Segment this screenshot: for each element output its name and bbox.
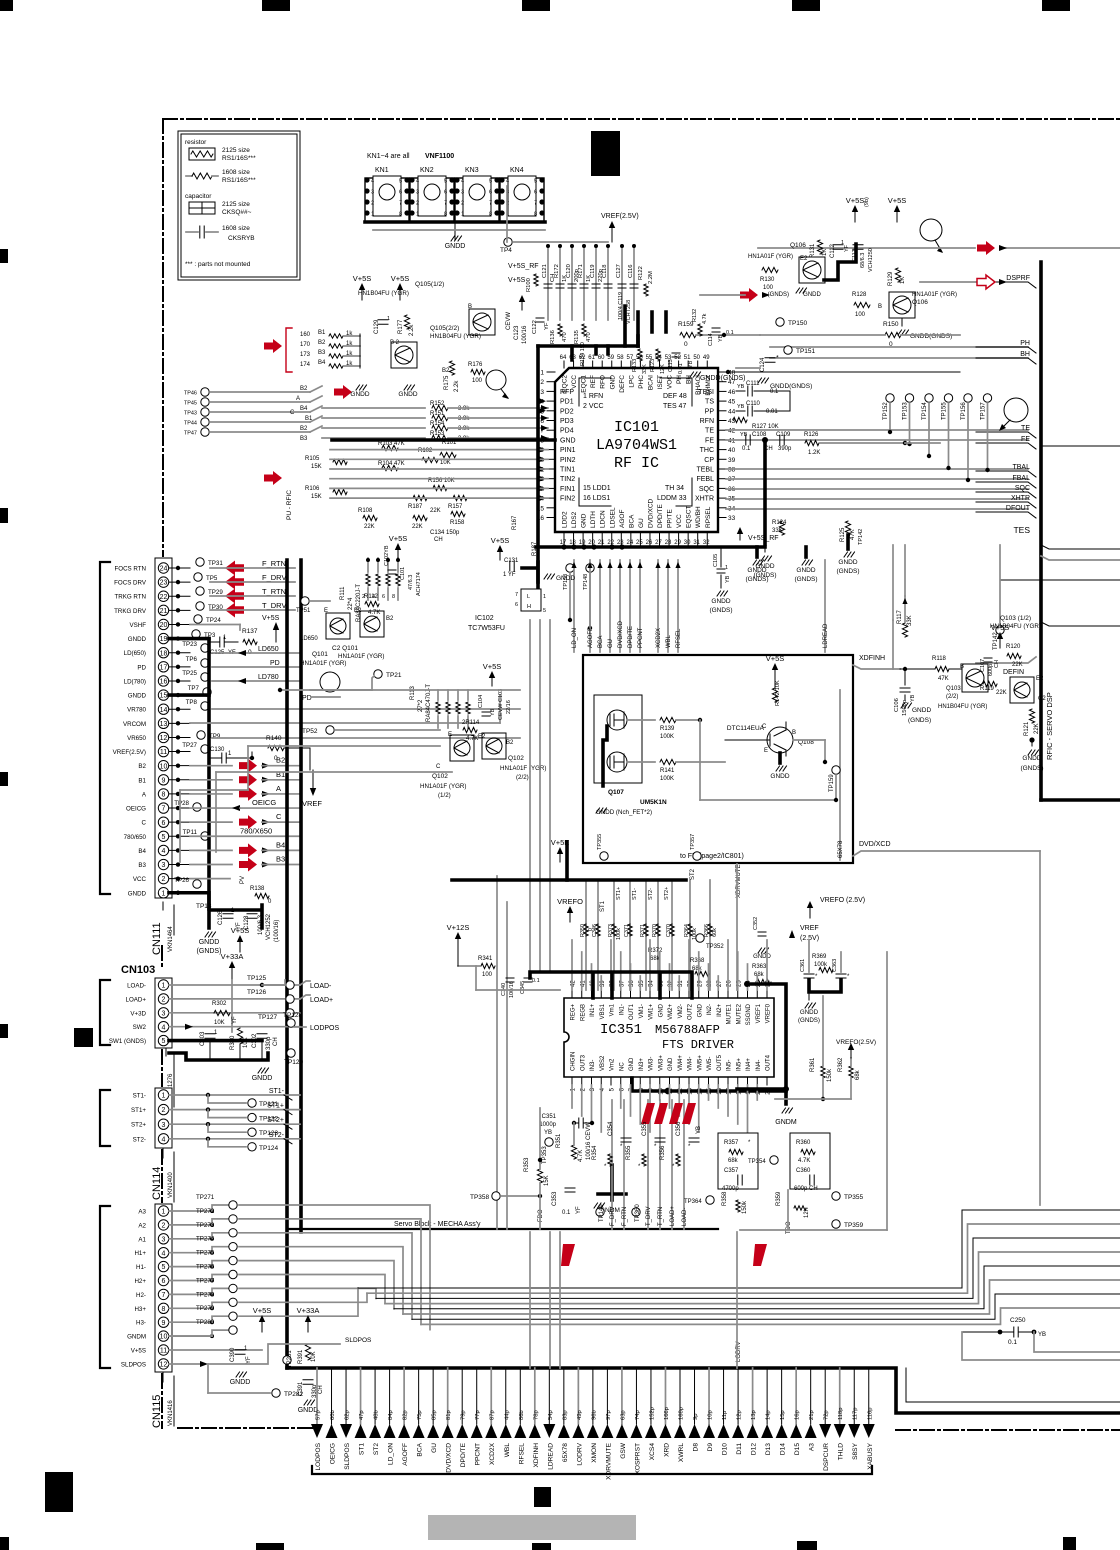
svg-text:R157: R157	[448, 504, 463, 510]
capacitor C390	[235, 1350, 245, 1354]
svg-text:F_RTN: F_RTN	[622, 1207, 628, 1226]
svg-text:TBAL: TBAL	[1012, 464, 1030, 471]
svg-text:C2: C2	[1038, 696, 1046, 702]
V+5S arrow Q102	[491, 678, 493, 686]
svg-text:14: 14	[160, 707, 168, 714]
resistor R101 R102	[440, 452, 456, 457]
svg-text:TE: TE	[1021, 425, 1030, 432]
wire rows to IC101 pins	[330, 449, 548, 451]
TP150	[776, 318, 784, 326]
svg-text:1: 1	[461, 212, 464, 218]
R357 68k C357 4700p	[718, 1133, 758, 1189]
svg-text:C: C	[290, 410, 295, 416]
wire KN to IC101	[506, 186, 508, 242]
svg-text:7: 7	[444, 201, 447, 207]
svg-text:31: 31	[693, 540, 700, 546]
svg-text:TDO: TDO	[786, 1221, 792, 1234]
svg-text:4700p: 4700p	[722, 1186, 739, 1192]
R150 resistor top	[885, 332, 901, 337]
svg-text:VSHF: VSHF	[129, 622, 146, 629]
resistors R108 R158	[363, 515, 377, 520]
svg-text:24: 24	[627, 540, 634, 546]
net DEFIN notch	[976, 657, 1036, 663]
svg-text:VBS2: VBS2	[600, 1055, 606, 1071]
svg-text:0.1: 0.1	[726, 330, 734, 336]
svg-text:IN5+: IN5+	[736, 1058, 742, 1071]
CN103 pins	[158, 980, 168, 990]
svg-text:GND: GND	[629, 1057, 635, 1071]
svg-text:VREFO (2.5V): VREFO (2.5V)	[820, 897, 865, 904]
frame border left lower segments	[161, 946, 163, 1428]
svg-text:7: 7	[399, 201, 402, 207]
svg-text:R362: R362	[838, 1057, 844, 1072]
svg-text:TEBL: TEBL	[696, 467, 714, 474]
C122 cap	[536, 318, 544, 322]
svg-text:22K: 22K	[996, 690, 1007, 696]
svg-text:54p: 54p	[548, 1410, 554, 1420]
svg-text:C302: C302	[252, 1033, 258, 1048]
svg-text:ST2: ST2	[373, 1443, 380, 1455]
svg-text:R138: R138	[250, 886, 265, 892]
net pin D9	[708, 1368, 710, 1424]
svg-text:10K: 10K	[214, 1020, 225, 1026]
svg-text:IN5-: IN5-	[727, 1060, 733, 1071]
svg-text:59: 59	[607, 355, 614, 361]
net FE	[726, 439, 1028, 441]
svg-text:16 LDS1: 16 LDS1	[583, 495, 610, 502]
svg-text:390p: 390p	[778, 446, 792, 452]
svg-text:5: 5	[162, 834, 166, 841]
svg-text:ST2+: ST2+	[664, 887, 670, 900]
svg-text:15K: 15K	[544, 1175, 550, 1186]
svg-text:5: 5	[543, 608, 546, 614]
svg-text:27: 27	[655, 540, 662, 546]
svg-text:D12: D12	[751, 1443, 758, 1455]
red arrow B1	[190, 779, 232, 781]
R360 4.7K C360 600p	[790, 1133, 830, 1189]
svg-text:C370: C370	[666, 924, 672, 937]
op-amp IC101 body	[555, 368, 718, 532]
svg-text:RFSEL: RFSEL	[518, 1443, 525, 1465]
net pin ST1	[360, 1368, 362, 1424]
svg-text:C355: C355	[642, 1121, 648, 1136]
svg-text:C113: C113	[668, 359, 674, 372]
svg-text:11: 11	[160, 1348, 167, 1355]
svg-text:R176: R176	[468, 362, 483, 368]
svg-text:R167: R167	[512, 515, 518, 530]
svg-text:VBS1: VBS1	[600, 1003, 606, 1019]
svg-text:TP44: TP44	[184, 421, 197, 427]
TP356 TP357 bottom of box	[600, 852, 608, 860]
svg-text:R154: R154	[430, 421, 445, 427]
TP359	[832, 1220, 840, 1228]
svg-text:3: 3	[371, 190, 374, 196]
svg-text:C134 150p: C134 150p	[430, 530, 460, 536]
svg-text:C250: C250	[1010, 1317, 1026, 1324]
svg-text:2.2k: 2.2k	[409, 324, 415, 336]
svg-text:Q105(2/2): Q105(2/2)	[430, 325, 459, 332]
svg-text:TP25: TP25	[182, 670, 197, 677]
R136 R135 470 resistors	[558, 324, 562, 336]
svg-text:C126: C126	[218, 910, 224, 925]
svg-text:11: 11	[160, 749, 167, 756]
svg-text:GNDD: GNDD	[838, 559, 857, 566]
svg-text:1: 1	[540, 370, 544, 377]
svg-text:B2: B2	[318, 340, 326, 346]
net XHTR	[726, 498, 1028, 500]
svg-text:KN1: KN1	[375, 167, 389, 174]
svg-text:FBAL: FBAL	[1012, 475, 1030, 482]
thin box bottom right	[906, 1368, 1120, 1402]
svg-text:R355: R355	[626, 1145, 632, 1160]
svg-text:75p: 75p	[417, 1410, 423, 1420]
svg-text:6: 6	[382, 594, 385, 600]
svg-text:TC7W53FU: TC7W53FU	[468, 625, 505, 632]
svg-text:GND: GND	[697, 1003, 703, 1017]
C340 100/16	[506, 978, 514, 982]
svg-text:64: 64	[560, 355, 567, 361]
svg-text:170: 170	[300, 342, 311, 348]
svg-text:81p: 81p	[446, 1410, 452, 1420]
svg-text:ST1+: ST1+	[616, 887, 622, 900]
svg-text:PIN1: PIN1	[560, 447, 576, 454]
svg-text:GNDD (Nch_FET*2): GNDD (Nch_FET*2)	[596, 809, 652, 816]
svg-text:13: 13	[160, 721, 168, 728]
svg-text:R360: R360	[796, 1140, 811, 1146]
svg-text:22K: 22K	[1012, 662, 1023, 668]
svg-text:1608 size: 1608 size	[222, 169, 250, 176]
svg-text:ACH7174: ACH7174	[416, 572, 422, 596]
svg-text:97p: 97p	[606, 1410, 612, 1420]
resistor R131 and C112	[817, 240, 822, 254]
svg-text:R172: R172	[554, 264, 560, 278]
svg-text:(GNDS): (GNDS)	[197, 948, 222, 955]
VREFO(2.5V) arrow right of IC351	[850, 1050, 852, 1058]
TP354 TP364	[706, 1196, 714, 1204]
svg-text:ST1: ST1	[600, 900, 606, 912]
registration mark top 3	[522, 0, 550, 11]
svg-text:TH 34: TH 34	[665, 485, 684, 492]
VR650 long wire	[212, 737, 520, 739]
net pin D13	[766, 1368, 768, 1424]
IC101 left pin stubs and labels	[547, 371, 555, 373]
svg-text:H2-: H2-	[136, 1292, 146, 1299]
svg-text:PPCNT: PPCNT	[475, 1443, 482, 1465]
svg-text:LPC: LPC	[628, 375, 635, 388]
GNDD GNDS drops under bus	[755, 547, 759, 557]
svg-text:10K: 10K	[311, 1351, 317, 1362]
svg-text:R353: R353	[524, 1157, 530, 1172]
svg-text:TRKG RTN: TRKG RTN	[114, 594, 146, 601]
svg-text:7: 7	[162, 1292, 166, 1299]
svg-text:TP272: TP272	[196, 1208, 215, 1215]
svg-text:C107: C107	[980, 659, 986, 672]
svg-text:E: E	[764, 748, 768, 754]
svg-text:1K: 1K	[822, 249, 828, 256]
svg-text:0.1: 0.1	[532, 978, 540, 984]
svg-text:B1: B1	[276, 770, 285, 779]
IC101 inner bracket bottom-right TH LDDM	[676, 478, 692, 506]
net pin LD_ON	[389, 1368, 391, 1424]
svg-text:GSW: GSW	[620, 1442, 627, 1459]
svg-text:9p: 9p	[693, 1414, 699, 1420]
svg-text:TP47: TP47	[184, 431, 197, 437]
svg-text:33: 33	[728, 515, 736, 522]
resistor R140	[268, 745, 284, 750]
wires below Q102	[248, 745, 440, 747]
svg-text:TP352: TP352	[706, 944, 724, 950]
svg-text:DVD/XCD: DVD/XCD	[647, 498, 654, 528]
frame border bottom	[178, 1427, 312, 1429]
registration mark top-left	[0, 0, 13, 11]
V+5S arrow Q103	[999, 639, 1001, 648]
svg-text:AGOF: AGOF	[619, 510, 626, 528]
svg-text:TP21: TP21	[386, 672, 402, 679]
bank above IC351	[585, 880, 587, 990]
svg-text:R366: R366	[704, 924, 710, 937]
svg-text:100/16 CEVW: 100/16 CEVW	[586, 1122, 592, 1160]
connector CN111 body	[155, 558, 172, 898]
svg-text:TP23: TP23	[182, 641, 197, 648]
svg-text:ST2-: ST2-	[269, 1132, 285, 1139]
svg-text:R139: R139	[660, 726, 675, 732]
svg-text:GNDD: GNDD	[128, 636, 147, 643]
svg-text:GNDD: GNDD	[252, 1075, 273, 1082]
R119 22K	[983, 681, 997, 686]
svg-text:DPD/TE: DPD/TE	[628, 626, 634, 648]
svg-text:HN1A01F (YGR): HN1A01F (YGR)	[420, 783, 466, 790]
svg-text:14p: 14p	[766, 1410, 772, 1420]
net wire to DSP top	[758, 247, 975, 249]
GNDD GNDS Q103	[1029, 737, 1034, 742]
thick V+5S_RF junction	[763, 440, 767, 544]
C105 cap under bus	[717, 569, 725, 573]
svg-text:HN1B04FU (YGR): HN1B04FU (YGR)	[990, 623, 1041, 630]
svg-text:R356: R356	[660, 1145, 666, 1160]
svg-text:C101: C101	[400, 567, 406, 580]
svg-text:100/6.3: 100/6.3	[258, 914, 264, 935]
svg-text:XWRL: XWRL	[678, 1443, 685, 1462]
svg-text:TESI: TESI	[698, 389, 714, 396]
svg-text:IN1-: IN1-	[619, 1004, 625, 1015]
svg-text:TRKG DRV: TRKG DRV	[114, 608, 147, 615]
R141 100K	[627, 761, 655, 763]
svg-text:D14: D14	[780, 1443, 787, 1455]
svg-text:(9b): (9b)	[864, 197, 870, 207]
circle annotation left lower	[320, 672, 340, 692]
connector CN114 body	[155, 1088, 172, 1148]
wire T_RTN	[210, 595, 295, 597]
red arrow rows160	[264, 339, 282, 353]
R120 22K	[1007, 653, 1021, 658]
transistor Q102b	[482, 733, 506, 759]
svg-text:TIN2: TIN2	[560, 476, 575, 483]
svg-text:C110: C110	[746, 401, 761, 407]
net pin D12	[752, 1368, 754, 1424]
net pin BCA	[418, 1368, 420, 1424]
svg-text:8: 8	[162, 792, 166, 799]
svg-text:XHTR: XHTR	[695, 496, 714, 503]
svg-text:R368: R368	[690, 958, 705, 964]
VR780 long wire	[212, 708, 520, 710]
svg-text:T_DRV: T_DRV	[262, 601, 286, 610]
svg-text:OUT1: OUT1	[629, 1003, 635, 1020]
FET Q107b	[607, 752, 627, 772]
svg-text:68/6.3: 68/6.3	[860, 253, 866, 268]
svg-text:C119: C119	[590, 265, 596, 278]
net pin THLD	[839, 1368, 841, 1424]
svg-text:VM3-: VM3-	[649, 1057, 655, 1071]
svg-text:C124: C124	[760, 357, 766, 372]
net pin XCD2X	[490, 1368, 492, 1424]
svg-text:68k: 68k	[754, 972, 765, 978]
svg-text:12p: 12p	[737, 1410, 743, 1420]
net pin XABUSY	[868, 1368, 870, 1424]
svg-text:C: C	[762, 724, 767, 730]
svg-text:(GNDS): (GNDS)	[794, 576, 817, 583]
svg-text:45: 45	[728, 399, 736, 406]
svg-text:1: 1	[387, 316, 390, 322]
svg-text:2: 2	[162, 1107, 166, 1114]
svg-text:15K: 15K	[311, 494, 322, 500]
svg-text:83p: 83p	[562, 1410, 568, 1420]
svg-text:Q106: Q106	[790, 242, 806, 249]
svg-text:SW2: SW2	[133, 1024, 147, 1031]
svg-text:DEFC: DEFC	[619, 375, 626, 393]
TP4 test point	[504, 238, 512, 246]
transistor Q103b	[962, 664, 988, 692]
svg-text:R105: R105	[305, 456, 320, 462]
svg-text:1608 size: 1608 size	[222, 225, 250, 232]
svg-text:E: E	[324, 608, 328, 614]
resistor R302	[214, 1010, 230, 1015]
svg-text:R119: R119	[980, 686, 995, 692]
svg-text:TP142: TP142	[858, 529, 864, 545]
svg-text:13p: 13p	[751, 1410, 757, 1420]
svg-text:R142 10K: R142 10K	[775, 680, 781, 706]
svg-text:RFIC - SERVO DSP: RFIC - SERVO DSP	[1045, 692, 1054, 760]
svg-text:52: 52	[674, 355, 681, 361]
svg-text:Vm2: Vm2	[610, 1058, 616, 1071]
svg-text:ST1-: ST1-	[632, 888, 638, 900]
bus right thick vertical	[1039, 262, 1043, 800]
svg-text:LD780: LD780	[258, 674, 279, 681]
svg-text:C120: C120	[566, 264, 572, 278]
svg-text:C: C	[276, 812, 282, 821]
frame border top	[163, 118, 1120, 120]
svg-text:WBL: WBL	[504, 1443, 511, 1458]
red arrow B3	[190, 864, 232, 866]
svg-text:R171: R171	[578, 264, 584, 278]
svg-text:HN1A01F (YGR): HN1A01F (YGR)	[338, 653, 384, 660]
svg-text:GNDD(GNDS): GNDD(GNDS)	[700, 375, 746, 382]
svg-text:IN4+: IN4+	[746, 1058, 752, 1071]
svg-text:TP28: TP28	[174, 800, 189, 807]
red chevrons under IC351	[641, 1103, 655, 1124]
svg-text:TP45: TP45	[184, 401, 197, 407]
svg-text:PH: PH	[1020, 340, 1030, 347]
svg-text:MUTE1: MUTE1	[727, 1003, 733, 1024]
svg-text:6: 6	[162, 1278, 166, 1285]
svg-text:TP7: TP7	[188, 685, 200, 692]
net pin GSW	[621, 1368, 623, 1424]
R341 100	[481, 963, 495, 968]
registration mark bottom-right	[1063, 1537, 1076, 1550]
svg-text:5: 5	[534, 179, 537, 185]
svg-text:GNDM: GNDM	[127, 1334, 146, 1341]
svg-text:VREF(2.5V): VREF(2.5V)	[113, 749, 146, 756]
svg-text:SLDPOS: SLDPOS	[345, 1337, 372, 1344]
net pin DSPCUR	[824, 1368, 826, 1424]
svg-text:8: 8	[162, 1306, 166, 1313]
svg-text:XDFINH: XDFINH	[859, 655, 885, 662]
red arrow bottom right	[753, 1244, 767, 1266]
IC351 top pin stubs and labels	[571, 990, 573, 998]
svg-text:R135: R135	[574, 330, 580, 344]
resistor R300 10K vertical	[237, 1028, 242, 1044]
TP127	[286, 1009, 294, 1017]
R138 resistor	[255, 893, 269, 898]
svg-text:65X78: 65X78	[838, 840, 844, 858]
svg-text:GNDD: GNDD	[128, 693, 147, 700]
svg-text:SQC: SQC	[1015, 485, 1030, 492]
svg-text:TP128: TP128	[283, 1012, 303, 1019]
svg-text:LOAD-: LOAD-	[127, 983, 146, 990]
svg-text:VREF0: VREF0	[766, 1003, 772, 1023]
svg-text:GNDD: GNDD	[230, 1379, 251, 1386]
svg-text:VR780: VR780	[127, 707, 146, 714]
svg-text:65X78: 65X78	[562, 1443, 569, 1462]
svg-text:0: 0	[889, 341, 893, 348]
svg-text:TP159: TP159	[829, 774, 835, 792]
svg-text:R150: R150	[883, 321, 899, 328]
svg-text:33K: 33K	[772, 528, 783, 534]
svg-text:4: 4	[162, 1250, 166, 1257]
svg-text:780/650: 780/650	[124, 834, 147, 841]
svg-text:YF: YF	[844, 244, 850, 252]
svg-text:SLDPOS: SLDPOS	[344, 1442, 351, 1469]
svg-text:KN3: KN3	[465, 167, 479, 174]
svg-text:VM2-: VM2-	[678, 1004, 684, 1018]
svg-text:CP: CP	[704, 457, 714, 464]
GNDD below Q105	[356, 385, 367, 390]
TP51	[301, 597, 309, 605]
svg-text:R113: R113	[410, 685, 416, 700]
svg-text:TE: TE	[705, 428, 714, 435]
wire VCC row	[190, 878, 230, 880]
svg-text:M56788AFP: M56788AFP	[655, 1023, 720, 1037]
svg-text:ST2: ST2	[690, 868, 696, 880]
svg-text:33K: 33K	[642, 364, 648, 374]
svg-text:C112: C112	[830, 243, 836, 258]
thick bus segment under bank	[538, 344, 638, 348]
resistor R127 10K	[733, 417, 747, 422]
svg-text:LD(650): LD(650)	[124, 650, 146, 657]
svg-text:100K: 100K	[660, 734, 674, 740]
svg-text:C353: C353	[552, 1191, 558, 1206]
net pin D11	[737, 1368, 739, 1424]
svg-text:R130: R130	[760, 277, 775, 283]
svg-text:(2/2): (2/2)	[946, 694, 958, 700]
svg-text:VREF(2.5V): VREF(2.5V)	[601, 213, 639, 220]
svg-text:22K: 22K	[364, 524, 375, 530]
R100 resistor	[534, 274, 538, 286]
svg-text:100k: 100k	[616, 928, 622, 940]
net pin LDREAD	[548, 1368, 550, 1424]
svg-text:68k: 68k	[728, 1158, 739, 1164]
svg-text:38: 38	[728, 467, 736, 474]
svg-text:OUT4: OUT4	[766, 1054, 772, 1071]
